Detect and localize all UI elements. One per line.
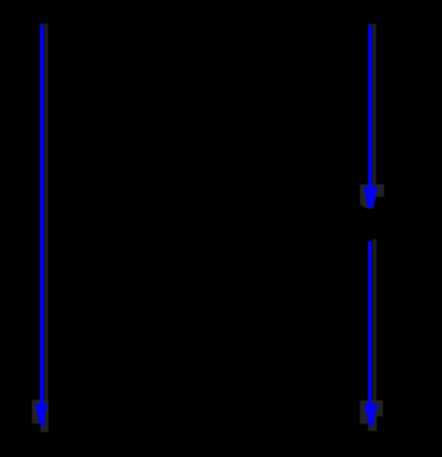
wire left lifeline (blue arrow shaft) — [40, 25, 44, 407]
arrowhead right bottom shadow — [360, 400, 383, 431]
arrowhead right middle (blue) — [363, 186, 377, 208]
arrowhead left bottom (blue) — [35, 404, 48, 426]
wire left lifeline shadow cap — [40, 24, 48, 26]
wire right lifeline lower shadow — [373, 239, 377, 405]
wire right lifeline upper shadow — [373, 24, 377, 187]
wire left lifeline shadow — [45, 24, 48, 405]
arrowhead right middle shadow — [360, 184, 384, 208]
wire right lifeline upper shadow cap — [368, 24, 376, 26]
arrowhead right bottom (blue) — [364, 404, 378, 426]
wire right lifeline lower (blue arrow shaft) — [368, 241, 372, 407]
wire right lifeline upper (blue arrow shaft) — [368, 26, 372, 188]
arrowhead left bottom shadow — [32, 400, 49, 432]
